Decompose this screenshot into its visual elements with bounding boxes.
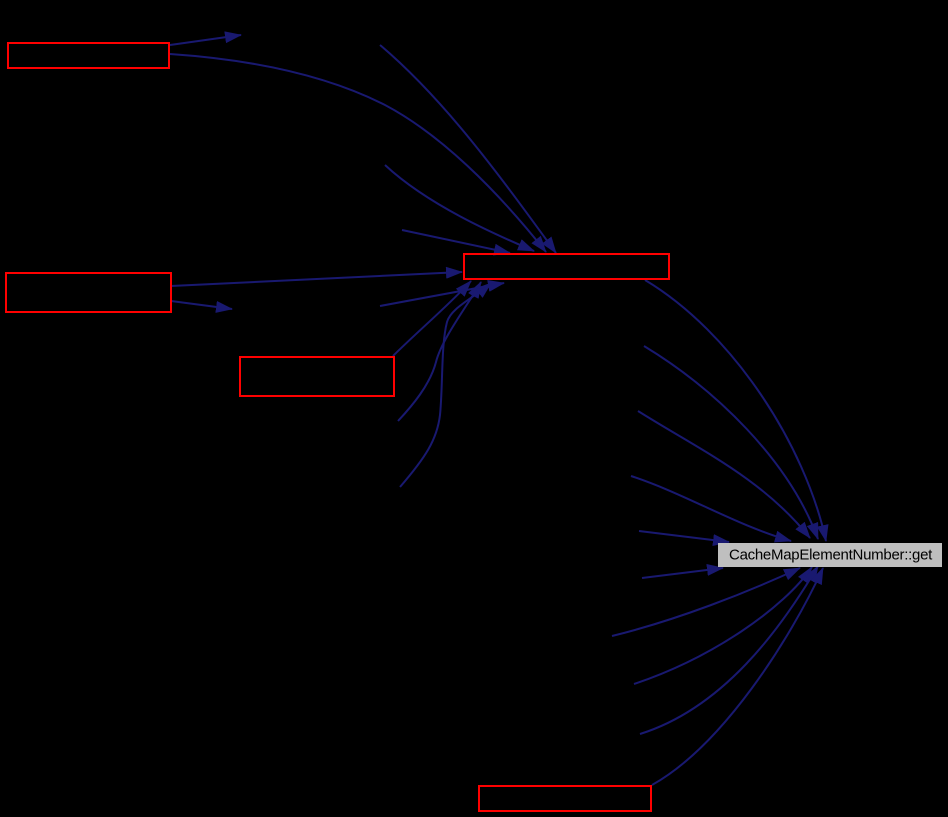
svg-text:CacheMapElementNumber::get: CacheMapElementNumber::get <box>729 547 933 564</box>
